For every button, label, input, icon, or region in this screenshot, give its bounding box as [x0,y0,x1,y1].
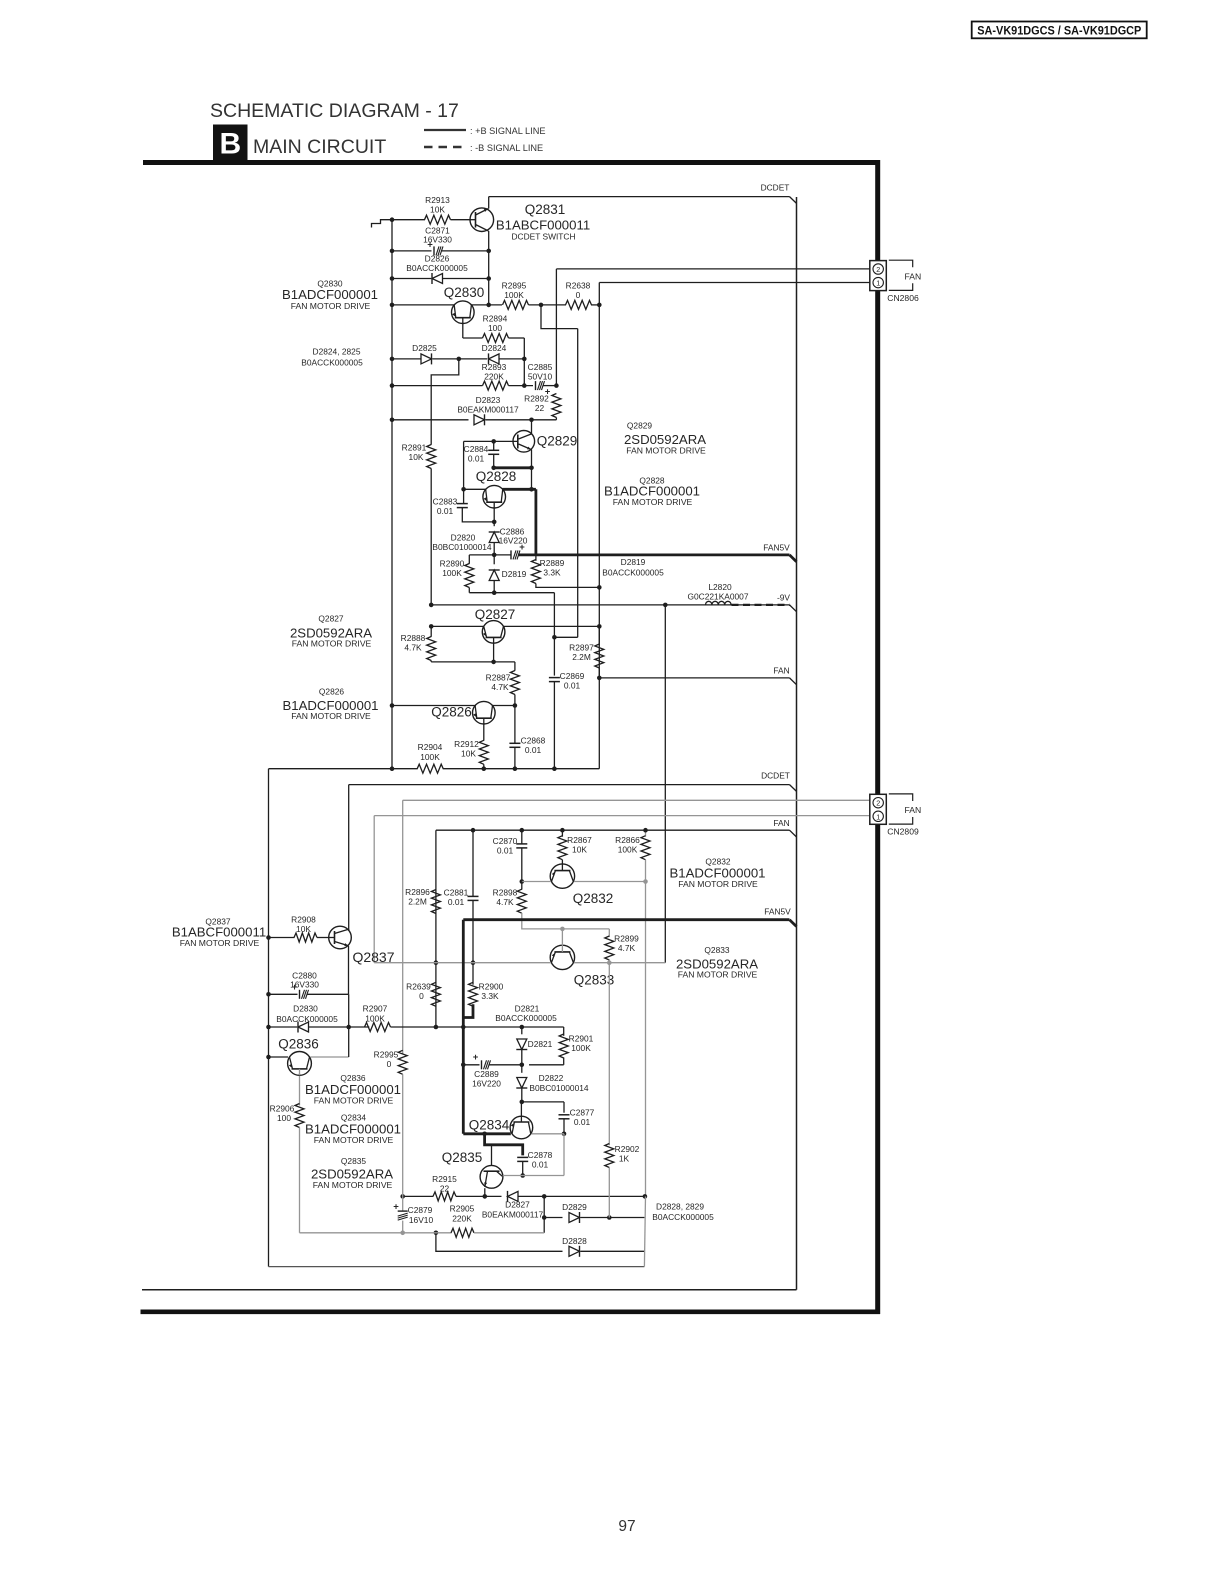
svg-text:D2824: D2824 [482,343,507,353]
svg-text:D2827: D2827 [505,1200,530,1210]
svg-text:R2904: R2904 [418,742,443,752]
wire Q2830 collector to node [471,304,502,306]
wire Q2829 base corner down [463,441,465,489]
svg-text:D2824, 2825: D2824, 2825 [313,347,361,357]
wire stub to x577 [554,636,577,638]
wire FAN lower flag into bus [790,830,797,837]
capacitor C2868 [514,706,516,744]
capacitor C2880 [299,990,301,999]
section letter B [213,125,248,161]
svg-text:R2908: R2908 [291,915,316,925]
svg-text:Q2833: Q2833 [704,945,729,955]
svg-text:C2870: C2870 [493,836,518,846]
svg-text:R2866: R2866 [615,835,640,845]
svg-text:SCHEMATIC DIAGRAM - 17: SCHEMATIC DIAGRAM - 17 [210,100,459,122]
wire FAN flag into bus [790,678,797,685]
svg-text:D2828, 2829: D2828, 2829 [656,1202,704,1212]
svg-text:B0EAKM000117: B0EAKM000117 [482,1210,544,1220]
capacitor C2883 [463,489,465,503]
Q2832 row gray [522,881,551,883]
svg-text:R2639: R2639 [406,982,431,992]
Q2837 base row [269,937,295,939]
svg-text:100: 100 [488,323,502,333]
svg-text:0: 0 [576,290,581,300]
svg-text:L2820: L2820 [708,582,732,592]
svg-text:FAN MOTOR DRIVE: FAN MOTOR DRIVE [314,1135,394,1145]
diode D2825 [421,354,432,364]
input stub terminal [372,220,393,228]
signal bundle bus vertical [796,197,798,1290]
wire D2825 row [392,358,421,360]
diode D2826 [392,278,431,280]
diode D2820 [493,522,495,526]
CN2809 pin2 row [403,799,871,801]
svg-text:FAN MOTOR DRIVE: FAN MOTOR DRIVE [292,639,372,649]
svg-text:50V10: 50V10 [528,372,553,382]
svg-text:220K: 220K [452,1214,472,1224]
svg-text:C2884: C2884 [464,444,489,454]
C2889 row [463,1064,479,1066]
transistor Q2832 [550,864,574,888]
wire -9V branch down to lower circuit [664,605,666,963]
wire emitter x348 down to D2830 row [348,994,350,1027]
legend -B signal line [424,146,466,149]
wire base row Q2831 [392,219,425,221]
wire D2824 corner vertical [523,359,525,386]
svg-text:0.01: 0.01 [532,1160,549,1170]
wire R2906 column [299,1074,301,1106]
wire pin2 corner down gray [402,800,404,1054]
svg-text:B: B [219,128,241,161]
D2829 row [544,1217,562,1219]
svg-text:Q2837: Q2837 [352,949,394,965]
Q2836 row [269,1056,289,1058]
wire bottom of R2890 D2819 row [469,592,554,594]
svg-text:G0C221KA0007: G0C221KA0007 [688,592,749,602]
node Q2828 emitter row [461,487,466,492]
svg-text:R2902: R2902 [615,1144,640,1154]
svg-text:R2887: R2887 [486,673,511,683]
svg-text:R2891: R2891 [402,443,427,453]
wire R2890 top [469,554,494,556]
svg-text:1: 1 [876,279,880,288]
diode D2819 [493,555,495,564]
resistor R2901 [559,1034,568,1058]
resistor R2890 [465,564,474,588]
resistor R2638 [566,300,592,309]
capacitor C2871 [392,250,432,252]
svg-text:100K: 100K [571,1043,591,1053]
wire R2892 to D2823 row [555,418,557,420]
-9V row [431,604,789,606]
svg-text:+: + [393,1202,399,1213]
diode D2827 [508,1191,519,1201]
svg-text:R2912: R2912 [454,739,479,749]
svg-text:Q2830: Q2830 [444,285,485,300]
capacitor C2886 [494,554,511,556]
capacitor C2877 [559,1114,570,1116]
bottom rail top circuit [269,768,418,770]
svg-text:FAN MOTOR DRIVE: FAN MOTOR DRIVE [291,301,371,311]
svg-text:: +B SIGNAL LINE: : +B SIGNAL LINE [470,126,546,136]
svg-text:D2821: D2821 [528,1039,553,1049]
svg-text:Q2829: Q2829 [537,434,578,449]
svg-text:FAN: FAN [905,805,922,815]
svg-text:B0BC01000014: B0BC01000014 [432,542,491,552]
bold row Q2834 emitter [463,1132,511,1135]
node FAN5V left [492,553,497,558]
bold FAN5V branch down [462,920,465,1134]
wire CN2806 pin1 line [599,282,870,284]
wire D2823 row [392,419,469,421]
svg-text:D2829: D2829 [562,1202,587,1212]
resistor R2894 [483,334,509,343]
svg-text:R2900: R2900 [479,982,504,992]
node junction R2913 left [390,217,395,222]
svg-text:R2888: R2888 [401,633,426,643]
wire R2902 gray column [608,963,610,1146]
svg-text:0.01: 0.01 [448,897,465,907]
svg-text:D2823: D2823 [476,395,501,405]
svg-text:D2825: D2825 [412,343,437,353]
DCDET row lower [349,784,790,786]
wire jog from R2638 node [541,305,578,329]
wire main row to Q2830 [392,304,454,306]
svg-text:D2830: D2830 [293,1004,318,1014]
svg-text:R2906: R2906 [270,1104,295,1114]
wire left spine upper [391,220,393,769]
diode D2828 [569,1246,580,1256]
svg-text:4.7K: 4.7K [404,643,422,653]
wire Q2829 base row [464,440,518,442]
svg-text:0.01: 0.01 [525,745,542,755]
svg-text:CN2806: CN2806 [887,293,919,303]
resistor R2887 [514,662,516,671]
wire R2866 gray down [645,860,647,1197]
resistor R2639 [431,982,440,1006]
D2828 row [436,1233,563,1252]
svg-text:SA-VK91DGCS / SA-VK91DGCP: SA-VK91DGCS / SA-VK91DGCP [977,23,1141,37]
Q2826 row [390,703,395,708]
svg-text:R2995: R2995 [374,1050,399,1060]
resistor R2915 [433,1192,456,1201]
svg-text:Q2834: Q2834 [469,1118,510,1133]
svg-text:Q2835: Q2835 [442,1150,483,1165]
wire Q2835 base from bold [491,1145,493,1166]
svg-text:C2869: C2869 [560,671,585,681]
diode D2821 [521,1027,523,1034]
wire R2895 to R2638 [529,304,567,306]
svg-text:16V220: 16V220 [472,1079,501,1089]
svg-text:D2822: D2822 [539,1073,564,1083]
svg-text:DCDET: DCDET [761,771,790,781]
resistor R2889 [535,555,537,561]
svg-text:16V330: 16V330 [290,980,319,990]
wire R2898 bottom jog to Q2833 base [522,913,610,929]
resistor R2893 [483,381,509,390]
resistor R2912 [479,740,488,764]
svg-text:MAIN CIRCUIT: MAIN CIRCUIT [253,136,386,158]
wire R2899 bottom [608,960,610,963]
svg-text:10K: 10K [430,205,445,215]
svg-text:Q2831: Q2831 [525,202,566,217]
svg-text:4.7K: 4.7K [618,943,636,953]
svg-text:C2883: C2883 [433,497,458,507]
wire Q2830 base to R2894 row [462,330,464,339]
wire Q2836 right riser [348,1027,350,1057]
svg-text:R2913: R2913 [425,195,450,205]
svg-text:R2901: R2901 [569,1034,594,1044]
wire Q2837 emitter down [348,946,350,995]
wire DCDET branch down to Q2837 [348,785,350,931]
wire x577 vertical [577,329,579,638]
diode D2829 [569,1213,580,1223]
resistor R2905 [451,1228,474,1237]
svg-text:R2890: R2890 [440,559,465,569]
svg-text:B1ADCF000001: B1ADCF000001 [282,287,378,302]
svg-text:100: 100 [277,1113,291,1123]
wire D2823 node down to Q2829 [531,420,533,434]
svg-text:FAN MOTOR DRIVE: FAN MOTOR DRIVE [180,938,260,948]
wire Q2837 collector up joins DCDET branch [348,929,350,931]
node DCDET row [489,196,790,198]
svg-text:1K: 1K [619,1154,630,1164]
svg-text:3.3K: 3.3K [543,568,561,578]
transistor Q2826 [473,701,496,724]
resistor R2902 [605,1144,614,1168]
svg-text:FAN MOTOR DRIVE: FAN MOTOR DRIVE [313,1180,393,1190]
capacitor C2889 [481,1060,483,1069]
resistor R2898 [521,882,523,890]
svg-text:C2877: C2877 [570,1108,595,1118]
transistor Q2837 [329,926,352,949]
resistor R2896 [431,890,440,914]
transistor Q2835 [480,1165,503,1188]
svg-text:R2907: R2907 [363,1004,388,1014]
wire -9V flag into bus [790,605,797,612]
svg-text:0.01: 0.01 [468,454,485,464]
svg-text:0: 0 [387,1059,392,1069]
svg-text:97: 97 [618,1518,635,1535]
transistor Q2830 [452,301,475,324]
wire R2901 corner down [563,1027,565,1036]
svg-text:FAN: FAN [905,272,922,282]
svg-text:FAN MOTOR DRIVE: FAN MOTOR DRIVE [613,497,693,507]
svg-text:FAN: FAN [773,818,789,828]
wire x645 bottom corner [644,1196,645,1266]
svg-text:R2915: R2915 [432,1174,457,1184]
wire base row Q2827 [431,661,515,663]
diode D2822 [517,1078,527,1089]
D2830 R2907 row [269,1026,298,1028]
svg-text:16V220: 16V220 [499,536,528,546]
svg-text:DCDET: DCDET [761,183,790,193]
transistor Q2836 [288,1052,312,1076]
transistor Q2827 [482,621,505,644]
wire x544 down [543,1196,545,1232]
resistor R2866 [645,830,647,837]
svg-text:Q2835: Q2835 [341,1156,366,1166]
svg-text:C2885: C2885 [528,362,553,372]
svg-text:Q2829: Q2829 [627,421,652,431]
R2915 row [400,1194,405,1199]
wire DCDET lower flag into bus [790,785,797,792]
svg-text:R2894: R2894 [483,314,508,324]
svg-text:16V10: 16V10 [409,1215,434,1225]
wire pin1 corner down [598,283,600,769]
wire branch D2825 node down to R2891 [431,359,459,445]
svg-text:4.7K: 4.7K [496,897,514,907]
svg-text:R2638: R2638 [566,281,591,291]
wire R2894 to corner down [509,337,525,339]
svg-text:R2893: R2893 [482,362,507,372]
svg-text:DCDET SWITCH: DCDET SWITCH [511,232,575,242]
wire lower box bottom rail [269,1266,645,1268]
wire R2890 bottom [468,588,470,593]
svg-text:220K: 220K [484,372,504,382]
wire R2638 right node [591,304,599,306]
svg-text:C2889: C2889 [474,1069,499,1079]
svg-text:2.2M: 2.2M [572,652,591,662]
svg-text:+: + [473,1052,479,1063]
Q2836 collector gray [311,1056,349,1058]
transistor Q2833 [550,945,574,969]
svg-text:100K: 100K [442,568,462,578]
diode D2824 [489,354,500,364]
wire FAN5V lower flag into bus [790,920,797,927]
connector CN2806 [870,261,887,291]
wire R2913 to Q2831 [451,219,472,221]
svg-text:10K: 10K [461,749,476,759]
svg-text:C2881: C2881 [444,888,469,898]
Q2827 row [431,625,484,627]
svg-text:R2889: R2889 [540,558,565,568]
svg-text:R2892: R2892 [524,394,549,404]
svg-text:B0ACCK000005: B0ACCK000005 [406,263,468,273]
svg-text:2: 2 [876,799,880,808]
svg-text:100K: 100K [420,752,440,762]
resistor R2906 [295,1104,304,1128]
svg-text:Q2836: Q2836 [278,1037,319,1052]
diode D2830 [298,1022,309,1032]
svg-text:R2867: R2867 [567,835,592,845]
wire CN2806 pin2 line [556,268,870,270]
capacitor C2878 [517,1156,528,1158]
wire R2891 down to -9V row [430,469,432,605]
svg-text:: -B SIGNAL LINE: : -B SIGNAL LINE [470,143,543,153]
svg-text:Q2832: Q2832 [573,891,614,906]
Q2835 collector gray row [503,1175,564,1177]
capacitor C2869 [553,637,555,675]
resistor R2904 [417,764,443,773]
svg-text:FAN MOTOR DRIVE: FAN MOTOR DRIVE [291,711,371,721]
wire pin2 corner down [555,269,557,386]
svg-text:B1ABCF000011: B1ABCF000011 [496,218,590,233]
svg-text:10K: 10K [296,924,311,934]
svg-text:Q2826: Q2826 [319,687,344,697]
svg-text:C2878: C2878 [528,1150,553,1160]
svg-text:D2821: D2821 [515,1004,540,1014]
Q2833 row gray [374,962,551,964]
wire R2899 top corner [608,929,610,937]
node main row y305 [390,303,395,308]
svg-text:Q2827: Q2827 [318,614,343,624]
resistor R2897 [598,626,600,645]
C2880 row [269,993,298,995]
wire Q2829 emitter down [531,450,533,490]
svg-text:FAN MOTOR DRIVE: FAN MOTOR DRIVE [678,879,758,889]
svg-text:0.01: 0.01 [574,1117,591,1127]
CN2809 pin1 row [374,815,870,817]
svg-text:-9V: -9V [777,593,790,603]
wire left branch x436 down [435,830,437,1027]
svg-text:2: 2 [876,265,880,274]
svg-text:Q2828: Q2828 [476,469,517,484]
bracket CN2806 [889,260,913,267]
svg-text:D2826: D2826 [425,254,450,264]
wire R2893 row [392,385,483,387]
svg-text:100K: 100K [504,290,524,300]
svg-text:C2868: C2868 [521,736,546,746]
wire Q2828 emitter left [464,488,486,490]
bold wire down to FAN5V [535,489,538,555]
svg-text:100K: 100K [618,845,638,855]
capacitor C2884 [493,441,495,450]
wire R2889 bottom jog [536,584,599,588]
resistor R2995 [398,1050,407,1074]
model number box [972,22,1147,39]
bracket CN2809 [889,794,913,801]
resistor R2867 [561,830,563,837]
Q2834 collector gray wire [532,1133,565,1135]
svg-text:2.2M: 2.2M [408,897,427,907]
svg-text:R2905: R2905 [450,1204,475,1214]
svg-text:Q2827: Q2827 [475,607,516,622]
transistor Q2831 [470,208,494,232]
wire Q2831 emitter down [488,231,490,305]
capacitor C2870 [521,830,523,844]
svg-text:FAN5V: FAN5V [763,543,790,553]
resistor R2908 [294,933,317,942]
svg-text:R2895: R2895 [502,281,527,291]
resistor R2891 [427,445,436,469]
transistor Q2828 [483,485,506,508]
svg-text:10K: 10K [572,845,587,855]
svg-text:B0EAKM000117: B0EAKM000117 [457,405,519,415]
wire Q2827 collector row [503,625,599,627]
svg-text:FAN MOTOR DRIVE: FAN MOTOR DRIVE [626,446,706,456]
svg-text:D2819: D2819 [621,557,646,567]
svg-text:0.01: 0.01 [437,506,454,516]
bold FAN5V row [518,554,790,557]
svg-text:C2879: C2879 [408,1205,433,1215]
svg-text:100K: 100K [365,1014,385,1024]
svg-text:4.7K: 4.7K [491,682,509,692]
FAN row top circuit [597,676,602,681]
bold FAN5V lower row [463,918,789,921]
wire Q2835 emitter down [484,1188,486,1196]
svg-text:B0ACCK000005: B0ACCK000005 [301,358,363,368]
wire corner down x554 [553,593,555,638]
wire Q2831 collector to DCDET row [488,197,490,209]
FAN row lower [436,829,790,831]
legend +B signal line [424,129,466,131]
svg-text:B0ACCK000005: B0ACCK000005 [602,568,664,578]
resistor R2895 [503,300,529,309]
svg-text:R2898: R2898 [493,888,518,898]
connector CN2809 [870,794,887,824]
svg-text:B0BC01000014: B0BC01000014 [529,1083,588,1093]
